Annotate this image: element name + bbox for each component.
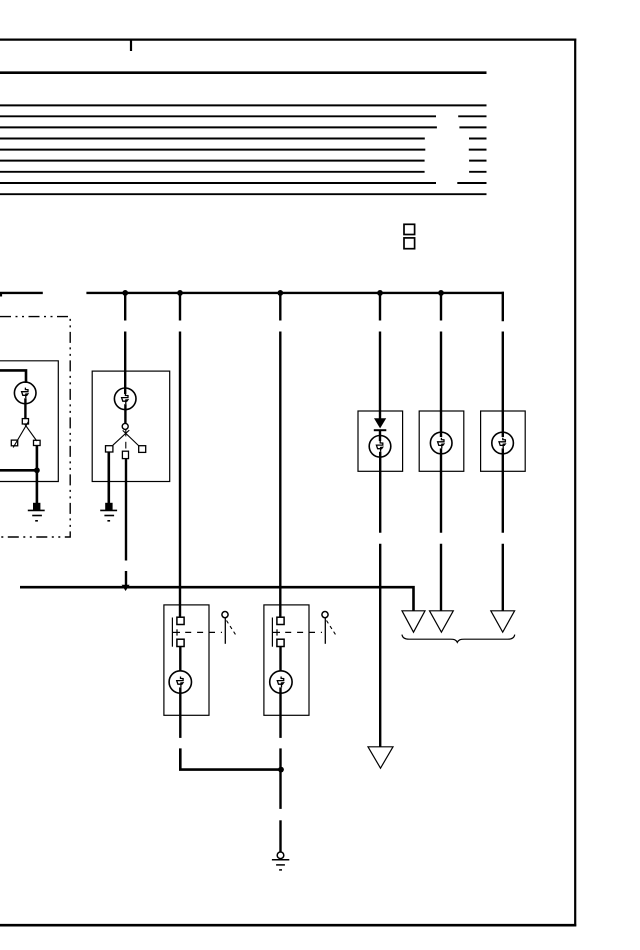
box A top terminal [177,617,184,624]
door switch S4 pivot [322,612,328,618]
wire corner drop at bus end (x=503) [503,293,504,321]
box A switch blade [171,618,173,647]
connector C1 upper cavity [404,224,415,234]
ground G2 [100,509,117,511]
brace under connectors [402,635,515,643]
switch S2 dashed center throw link [125,442,127,449]
diode D1 [374,418,386,428]
unit box U1 (left, clipped) [0,361,58,482]
wire harness bus line 4 [0,138,425,140]
wire harness bus line 3 [0,126,437,128]
lamp L4 filament [438,438,444,449]
lamp L5 filament [499,438,505,449]
page bottom border [0,924,576,927]
wire drop to door courtesy light A (x=180) [179,293,181,321]
off-page connector T3 [491,611,515,632]
wire diode to lamp L3 [379,430,381,441]
wire below lamp L3 [379,452,381,533]
lamp L7 filament [277,677,283,688]
wire drop to interior light (x=125) [124,293,126,321]
ground G1 terminal pad [33,503,40,510]
wire below lamp L5 [502,448,504,532]
wire S2 left throw to ground [108,452,111,503]
switch S2 right throw contact [139,446,146,453]
wire into U1 lamp [0,370,26,383]
switch S2 left throw contact [106,446,113,452]
lamp box B1 (with diode) [358,411,403,471]
wire harness bus line 8 [0,182,436,184]
box B dashed mechanical link [285,631,322,633]
wire harness bus line 2 [0,115,436,117]
box B top terminal [277,617,284,624]
wire below lamp L7 [279,687,281,738]
node junction at x=380 [377,290,383,296]
switch S2 blade to right throw [123,430,139,446]
header separator line [0,71,487,74]
wire below lamp L4 [440,448,442,532]
wire corner to ground junction [180,748,281,769]
ground G3 [272,859,289,861]
lamp box B3 [481,411,526,471]
door switch S3 open position dashes [227,621,238,637]
lamp box B2 [419,411,464,471]
switch S2 center throw contact [122,451,128,458]
door switch S4 lever [324,618,326,644]
node junction at x=180 [177,290,183,296]
box A dashed mechanical link [185,631,222,633]
page right border [574,39,576,927]
box B bottom terminal [277,639,284,646]
power bus wire main segment [86,292,504,294]
lamp L1 bulb [14,382,36,404]
box A actuator cross [172,631,180,633]
wire harness bus line 5 [0,149,425,151]
node junction at x=441 [438,290,444,296]
top border tick mark [130,40,132,51]
node junction at x=125 [122,290,128,296]
lamp L1 filament [22,388,28,399]
switch S2 blade to left throw [113,430,129,445]
off-page connector T1 [402,611,425,632]
node junction in U1 [34,467,40,473]
wire terminal to lamp L7 [279,647,281,672]
wire harness bus line 1 [0,104,487,106]
off-page connector T2 [430,611,454,632]
lamp L7 bulb [270,671,292,693]
switch S1 blade to left throw [13,422,28,448]
power bus wire left segment [0,292,43,294]
switch S1 right throw contact [34,440,41,445]
lamp L2 filament [122,394,128,405]
wire harness bus line 9 [0,193,487,195]
lamp L3 filament [376,441,382,452]
door switch box B [264,605,309,715]
door switch S3 lever [224,618,226,644]
wire harness bus line 6 [0,160,425,162]
lamp L6 bulb [169,671,191,693]
wire drop to diode lamp box (x=380) [379,293,381,321]
dash-dot assembly outline box [0,317,70,537]
lamp L2 bulb [114,388,136,410]
ground terminal ring [277,852,284,859]
door switch box A [164,605,209,715]
lamp L5 bulb [492,432,514,454]
box B switch blade [271,618,273,647]
page top border [0,38,576,40]
arrow junction onto lower feed wire [122,585,130,591]
door switch S4 open position dashes [327,621,338,637]
switch S2 common contact [122,423,128,429]
connector C1 lower cavity [404,238,415,249]
box A bottom terminal [177,639,184,646]
lamp L3 bulb [369,436,391,458]
switch S1 common contact [22,419,28,424]
wire lamp L1 to switch [24,398,26,418]
wire terminal to lamp L6 [179,647,181,672]
unit box U2 [92,371,170,481]
ground G1 [28,509,45,511]
wire S2 center throw down [125,459,127,561]
wire to ground terminal [279,820,281,852]
switch S1 blade to right throw [25,424,37,441]
wire L2 to switch S2 [124,404,126,423]
switch S1 left throw contact [11,440,17,446]
wire drop to lamp box 2 (x=441) [440,293,442,321]
switch S2 blade stem [125,429,127,436]
lamp L6 filament [177,677,183,688]
wire drop to door courtesy light B (x=280) [279,293,281,321]
wire into junction from left [0,469,37,472]
node junction at x=280 [277,290,283,296]
wire S1 to ground junction [36,446,39,504]
door switch S3 pivot [222,612,228,618]
power bus wire left end stub [0,293,2,297]
box B actuator cross [272,631,280,633]
wire through ground junction [279,748,281,809]
ground G2 terminal pad [105,503,112,510]
wire below lamp L6 [179,687,181,715]
node junction at ground rail [278,767,284,773]
off-page connector T4 [368,747,393,768]
wire harness bus line 7 [0,171,425,173]
lower feed wire [20,587,414,611]
lamp L4 bulb [430,432,452,454]
